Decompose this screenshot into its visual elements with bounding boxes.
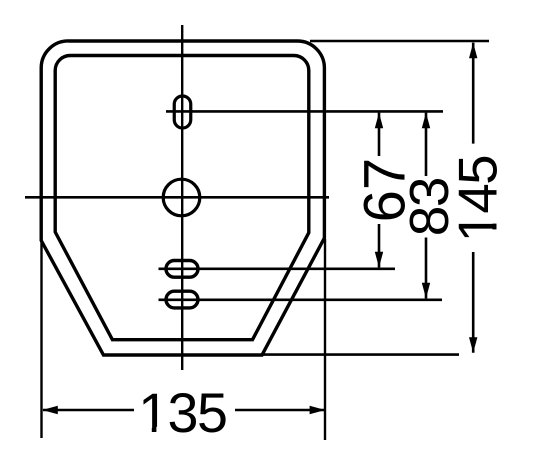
arrowhead 67 down	[375, 252, 383, 268]
arrowhead 145 down	[469, 337, 477, 353]
inner outline of plate	[55, 55, 309, 339]
arrowhead 67 up	[375, 113, 383, 129]
arrowhead 83 down	[422, 283, 430, 299]
dimension line 83 top segment	[425, 113, 428, 176]
arrowhead 83 up	[422, 113, 430, 129]
left extension line for 135	[40, 242, 42, 438]
svg-text:145: 145	[448, 156, 509, 243]
arrowhead 135 left	[42, 406, 58, 414]
top extension line for 145	[310, 40, 489, 43]
centerline	[181, 25, 183, 370]
outer outline of plate	[41, 41, 324, 355]
mask: remove Liberation '1' foot serif in rotated "145"	[492, 213, 499, 224]
dimension line 67 bottom segment	[378, 224, 381, 267]
dimension line 67 top segment	[378, 113, 381, 156]
dimension line 135 left segment	[43, 409, 134, 412]
leader line through top slot	[166, 110, 443, 113]
arrowhead 145 up	[469, 43, 477, 59]
arrowhead 135 right	[310, 406, 326, 414]
dimension line 135 right segment	[235, 409, 325, 412]
dimension line 145 bottom segment	[472, 252, 475, 353]
center circle	[163, 179, 200, 216]
leader line through circle	[25, 196, 329, 199]
bottom slot (horizontal obround)	[166, 291, 198, 308]
bottom extension line for 145	[263, 353, 459, 356]
dimension line 145 top segment	[472, 43, 475, 144]
mask: remove Liberation '1' foot serif in "135" (target font has plain stem)	[141, 427, 152, 433]
top slot (vertical obround)	[174, 96, 191, 128]
leader line through middle slot	[159, 267, 396, 270]
middle slot (horizontal obround)	[166, 261, 198, 278]
leader line through bottom slot	[159, 298, 443, 301]
dimension line 83 bottom segment	[425, 238, 428, 299]
svg-text:135: 135	[138, 382, 226, 444]
right extension line for 135	[324, 239, 326, 440]
